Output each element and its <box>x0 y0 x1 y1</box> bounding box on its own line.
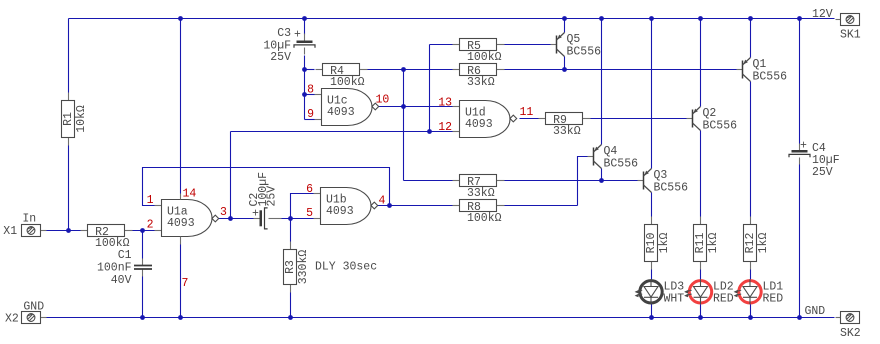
svg-text:25V: 25V <box>812 166 833 179</box>
wire R5 to Q5 base <box>505 44 552 46</box>
junction (700,317) <box>698 315 703 320</box>
LED LD1 red <box>734 279 784 305</box>
gate U1d (NAND 4093) <box>453 101 517 138</box>
svg-text:33kΩ: 33kΩ <box>553 125 581 138</box>
transistor Q1 BC556 <box>737 58 788 84</box>
resistor R9 <box>539 113 591 139</box>
wire Q4 base route <box>578 157 589 206</box>
junction (651,317) <box>649 315 654 320</box>
svg-text:10: 10 <box>376 94 390 107</box>
junction (564,69) <box>562 67 567 72</box>
svg-text:6: 6 <box>306 183 313 196</box>
wire Q3 collector to R10 <box>651 193 653 217</box>
wire R8 to Q4 base route <box>505 205 578 207</box>
svg-text:40V: 40V <box>111 274 132 287</box>
capacitor C4 <box>789 140 840 180</box>
wire 12V rail <box>69 18 835 20</box>
wire U1a pin14 stub <box>180 194 182 200</box>
svg-text:BC556: BC556 <box>567 46 602 59</box>
svg-text:13: 13 <box>438 97 452 110</box>
svg-text:100kΩ: 100kΩ <box>330 76 365 89</box>
LED LD3 white <box>635 279 685 305</box>
wire net y131 to U1d pin12 <box>231 131 453 133</box>
junction (290,218) <box>288 216 293 221</box>
svg-text:WHT: WHT <box>664 292 685 305</box>
wire node to R4 left <box>305 69 315 71</box>
svg-text:9: 9 <box>307 108 314 121</box>
wire R6 to Q1 base <box>505 69 738 71</box>
svg-text:C1: C1 <box>118 249 132 262</box>
connector SK1 (12V) <box>812 8 861 42</box>
wire U1c out to U1d pin13 <box>379 106 453 108</box>
LED LD2 red <box>684 279 734 305</box>
svg-text:R11: R11 <box>694 233 707 254</box>
junction (389,205) <box>387 203 392 208</box>
gate U1c (NAND 4093) <box>315 89 379 126</box>
svg-text:R12: R12 <box>744 233 757 254</box>
resistor R7 <box>453 175 505 201</box>
junction (564,18.5) <box>562 16 567 21</box>
wire LD3 to GND <box>651 304 653 318</box>
svg-text:Q1: Q1 <box>753 58 767 71</box>
junction (403,69) <box>401 67 406 72</box>
svg-text:R10: R10 <box>645 233 658 254</box>
wire R2 to U1a pin2 <box>133 230 155 232</box>
wire LD1 to GND <box>750 304 752 318</box>
wire R4 out to R6 <box>368 69 453 71</box>
svg-text:BC556: BC556 <box>703 120 738 133</box>
wire C4 column bottom <box>799 165 801 318</box>
svg-text:Q3: Q3 <box>654 169 668 182</box>
junction (799,18.5) <box>797 16 802 21</box>
junction (180,317) <box>178 315 183 320</box>
svg-text:RED: RED <box>713 292 734 305</box>
junction (601,180) <box>599 178 604 183</box>
svg-text:Q5: Q5 <box>567 33 581 46</box>
svg-text:100kΩ: 100kΩ <box>467 212 502 225</box>
svg-text:+: + <box>800 140 807 153</box>
junction (68,230) <box>66 228 71 233</box>
junction (180,18.5) <box>178 16 183 21</box>
wire R1 top column <box>68 19 70 93</box>
junction (304,94) <box>302 92 307 97</box>
svg-text:12: 12 <box>438 121 452 134</box>
wire U1a pin7 stub <box>180 237 182 245</box>
wire Q5 collector down <box>564 57 566 70</box>
svg-text:X1: X1 <box>3 225 17 238</box>
wire Q5 emitter up <box>564 19 566 33</box>
wire Q4 collector down <box>601 169 603 181</box>
wire Q2 collector to R11 <box>700 131 702 217</box>
svg-text:1kΩ: 1kΩ <box>658 233 671 254</box>
svg-text:SK2: SK2 <box>840 327 861 340</box>
wire Q4 emitter column x601 <box>601 19 603 145</box>
junction (290,317) <box>288 315 293 320</box>
wire R12 to LD1 <box>750 270 752 281</box>
svg-text:330kΩ: 330kΩ <box>297 250 310 285</box>
wire U1a pin14 column <box>180 19 182 194</box>
resistor R10 <box>645 217 671 270</box>
svg-text:4: 4 <box>379 195 386 208</box>
svg-text:25V: 25V <box>270 51 291 64</box>
junction (304,18.5) <box>302 16 307 21</box>
wire bend to R5 left <box>430 44 453 46</box>
wire R11 to LD2 <box>700 270 702 281</box>
svg-text:100nF: 100nF <box>97 262 132 275</box>
svg-text:BC556: BC556 <box>753 71 788 84</box>
svg-text:3: 3 <box>220 206 227 219</box>
wire R1 bottom <box>68 146 70 231</box>
transistor Q3 BC556 <box>638 169 689 195</box>
junction (403,106) <box>401 104 406 109</box>
junction (799,317) <box>797 315 802 320</box>
junction (750,317) <box>748 315 753 320</box>
wire R5 feedback column x429 <box>429 45 431 132</box>
wire U1a out to C2 <box>219 218 254 220</box>
junction (429,131) <box>427 129 432 134</box>
connector SK2 (GND) <box>805 305 861 340</box>
resistor R5 <box>453 39 505 65</box>
svg-text:12V: 12V <box>812 8 833 21</box>
svg-text:DLY 30sec: DLY 30sec <box>315 261 377 274</box>
svg-text:14: 14 <box>183 188 197 201</box>
svg-text:4093: 4093 <box>326 205 354 218</box>
wire R9 to Q2 base <box>591 118 688 120</box>
wire U1d out to R9 <box>520 118 539 120</box>
junction (142,230) <box>140 228 145 233</box>
resistor R12 <box>744 217 770 270</box>
svg-text:100kΩ: 100kΩ <box>467 51 502 64</box>
junction (601,18.5) <box>599 16 604 21</box>
svg-text:GND: GND <box>23 301 44 314</box>
svg-text:2: 2 <box>147 219 154 232</box>
wire Q1 emitter column x750 <box>750 19 752 58</box>
svg-text:+: + <box>252 207 259 220</box>
wire feedback column x403 <box>403 70 405 181</box>
svg-text:Q2: Q2 <box>703 107 717 120</box>
svg-text:GND: GND <box>805 305 826 318</box>
wire Q2 emitter column x700 <box>700 19 702 107</box>
svg-text:In: In <box>22 213 36 226</box>
wire R3 top <box>290 219 292 242</box>
svg-text:4093: 4093 <box>167 217 195 230</box>
svg-text:SK1: SK1 <box>840 29 861 42</box>
wire U1c pin8 stub <box>305 94 315 96</box>
junction (230,218) <box>228 216 233 221</box>
junction (750,18.5) <box>748 16 753 21</box>
capacitor C2 <box>248 172 282 229</box>
connector X1 (In) <box>3 213 46 238</box>
svg-text:BC556: BC556 <box>604 158 639 171</box>
junction (304,69) <box>302 67 307 72</box>
svg-text:RED: RED <box>763 292 784 305</box>
resistor R3 <box>284 242 310 293</box>
wire C3 top <box>304 19 306 35</box>
wire C2 to U1b pin5 <box>282 218 314 220</box>
wire R7 row left <box>404 180 453 182</box>
resistor R2 <box>81 225 133 251</box>
svg-text:7: 7 <box>182 277 189 290</box>
svg-text:33kΩ: 33kΩ <box>467 187 495 200</box>
wire U1a pin7 to GND <box>180 245 182 318</box>
svg-text:BC556: BC556 <box>654 182 689 195</box>
resistor R1 <box>62 93 88 146</box>
junction (142,317) <box>140 315 145 320</box>
transistor Q4 BC556 <box>588 145 639 171</box>
wire C3 bottom to node <box>304 56 306 70</box>
transistor Q5 BC556 <box>551 33 602 59</box>
wire U1b out to R8 <box>378 205 453 207</box>
svg-text:X2: X2 <box>5 312 19 325</box>
svg-text:4093: 4093 <box>465 118 493 131</box>
svg-text:11: 11 <box>520 106 534 119</box>
svg-text:4093: 4093 <box>327 106 355 119</box>
wire R7 to Q3 base <box>505 180 638 182</box>
wire U1b pin6 route <box>291 194 314 219</box>
wire R3 bottom to GND <box>290 293 292 318</box>
svg-text:R1: R1 <box>62 112 75 126</box>
gate U1b (NAND 4093) <box>314 188 378 225</box>
wire node y69 to U1c inputs column <box>304 70 306 120</box>
gate U1a (NAND 4093) <box>155 200 219 237</box>
svg-text:1: 1 <box>147 194 154 207</box>
svg-text:33kΩ: 33kΩ <box>467 76 495 89</box>
svg-text:10kΩ: 10kΩ <box>75 105 88 133</box>
svg-text:1kΩ: 1kΩ <box>707 233 720 254</box>
wire U1c pin9 stub <box>305 119 315 121</box>
resistor R4 <box>316 64 368 90</box>
wire R10 to LD3 <box>651 270 653 281</box>
wire X1 to R2 <box>46 230 81 232</box>
svg-text:1kΩ: 1kΩ <box>757 233 770 254</box>
svg-text:5: 5 <box>306 207 313 220</box>
capacitor C1 <box>97 249 152 287</box>
wire C4 column top <box>799 19 801 144</box>
junction (700,18.5) <box>698 16 703 21</box>
junction (651,18.5) <box>649 16 654 21</box>
svg-text:+: + <box>294 29 301 42</box>
wire junction to C1 top <box>142 231 144 259</box>
svg-text:25V: 25V <box>266 186 279 207</box>
wire GND rail <box>47 317 835 319</box>
wire Q1 collector to R12 <box>750 82 752 217</box>
connector X2 (GND) <box>5 301 47 326</box>
resistor R6 <box>453 64 505 90</box>
resistor R8 <box>453 200 505 226</box>
wire Q3 emitter column x651 <box>651 19 653 169</box>
capacitor C3 <box>263 27 315 64</box>
wire LD2 to GND <box>700 304 702 318</box>
wire U1a out column x230 <box>230 132 232 219</box>
wire U1a pin1 feedback loop <box>143 168 390 206</box>
transistor Q2 BC556 <box>687 107 738 133</box>
svg-text:C3: C3 <box>277 27 291 40</box>
svg-text:Q4: Q4 <box>604 145 618 158</box>
resistor R11 <box>694 217 720 270</box>
svg-text:R3: R3 <box>284 260 297 274</box>
wire C1 bottom <box>142 277 144 318</box>
svg-text:8: 8 <box>307 84 314 97</box>
